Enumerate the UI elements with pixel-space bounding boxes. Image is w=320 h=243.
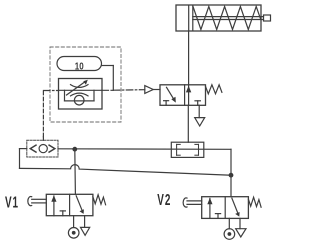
shuttle valve (OR) (27, 140, 58, 157)
flow control valve with check bypass (timer throttle) (59, 79, 103, 110)
V2 exhaust (236, 218, 246, 237)
pilot line (dashed) shuttle valve to timer (42, 91, 44, 141)
pilot valve left position: A-to-R path and blocked T (164, 87, 176, 105)
wire: shuttle left port down to bottom rail (20, 149, 27, 169)
junction node: V1 output (72, 147, 77, 152)
timer enclosure (dashed box) (50, 47, 121, 122)
wire: reservoir to pilot line (102, 66, 114, 91)
V1 return spring (93, 195, 106, 205)
wire: V2 output riser to AND right input (230, 149, 232, 196)
svg-text:V2: V2 (157, 191, 171, 209)
wire: shuttle right port to AND valve (through-line) (58, 148, 231, 151)
op 3/2 pilot valve body (160, 85, 206, 106)
svg-text:10: 10 (75, 61, 84, 72)
pilot valve exhaust (open triangle) (195, 105, 205, 126)
reservoir "10" (57, 57, 102, 72)
wire: V1 output riser (74, 149, 77, 194)
valve V2 (3/2 push-button) (157, 191, 171, 209)
V1 exhaust (81, 216, 90, 236)
V2 return spring (248, 197, 261, 207)
V2 push button (183, 198, 202, 207)
V2 pressure source (224, 218, 235, 239)
two-pressure AND valve (171, 142, 204, 157)
valve V1 (3/2 push-button) (5, 193, 19, 211)
V1 pressure source (68, 216, 79, 238)
pilot valve pneumatic pilot triangle (145, 86, 160, 94)
wire: pilot valve to AND valve (187, 105, 189, 142)
wire: cylinder port to pilot valve (188, 31, 190, 85)
wire: bottom rail with hop over V1 riser, to V2 junction (20, 165, 232, 176)
pilot line (dash-dot) from timer to pilot valve (44, 89, 145, 92)
V1 push button (28, 197, 46, 206)
pilot valve return spring (206, 85, 222, 94)
pilot valve right position: P-to-A arrow and blocked T (186, 85, 201, 106)
junction node: V2 output (229, 173, 234, 178)
cylinder C1 (single-acting, spring return) (176, 5, 271, 31)
svg-text:V1: V1 (5, 193, 19, 211)
